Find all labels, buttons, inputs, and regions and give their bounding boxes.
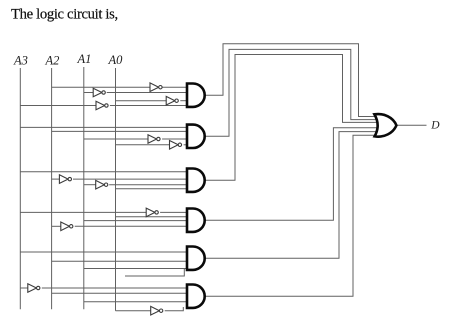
wire G2 input row 4 (A0 to inverter to gate) xyxy=(116,144,170,146)
wire OR output to D xyxy=(396,124,426,126)
wire A3 vertical bus xyxy=(19,68,21,309)
wire A1 vertical bus xyxy=(83,67,85,309)
and-gate G6 xyxy=(187,285,205,308)
wire G1 output route over the top to OR input 1 xyxy=(205,44,382,117)
wire A2 vertical bus xyxy=(51,68,53,309)
wire G1 input row 2 (A1 to inverter to gate) xyxy=(84,92,93,94)
and-gate G5 xyxy=(187,247,205,270)
inverter G1 row4 (NOT A3) xyxy=(96,101,105,110)
wire A0 vertical bus xyxy=(115,68,117,311)
wire G1 input row 3 (A0 to inverter to gate) xyxy=(116,100,167,102)
wire G2 output route over the top to OR input 2 xyxy=(205,49,382,136)
wire G4 input row 4 (A2 to inverter to gate) xyxy=(52,225,61,227)
inverter G3 row2 (NOT A2) xyxy=(59,175,68,184)
inverter G1 row3 (NOT A0) xyxy=(166,96,175,105)
svg-text:A1: A1 xyxy=(77,52,92,66)
inverter G1 row2 (NOT A1) xyxy=(93,88,102,97)
wire G5 output route to OR input 5 xyxy=(205,132,382,259)
inverter G1 row1 (NOT A2) xyxy=(150,83,159,92)
wire G5 input row 2 (A2 to gate) xyxy=(52,260,188,262)
wire G3 input row 1 (A3 to gate) xyxy=(20,171,188,173)
wire G3 input row 2 (A2 to inverter to gate) xyxy=(52,178,60,180)
wire G6 input row 2 (A2 to gate) xyxy=(52,292,188,294)
wire G6 output route to OR input 6 xyxy=(205,135,382,296)
inverter G6 row4 (NOT A0) xyxy=(151,306,160,315)
wire G4 output route to OR input 4 xyxy=(205,128,382,220)
inverter G2 row3 (NOT A1) xyxy=(148,135,157,144)
wire G4 input row 3 (A1 to gate) xyxy=(84,220,188,222)
inverter G2 row4 (NOT A0) xyxy=(170,141,179,150)
svg-text:The logic circuit is,: The logic circuit is, xyxy=(11,7,118,23)
inverter G3 row3 (NOT A1) xyxy=(96,180,105,189)
wire G5 input row 4 (floating stub to gate bottom) xyxy=(125,269,184,276)
wire G6 input row 1 (A3 to inverter to gate) xyxy=(20,287,28,289)
svg-text:A3: A3 xyxy=(13,54,28,68)
wire G2 input row 1 (A3 to gate) xyxy=(20,126,188,128)
wire G5 input row 3 (A1 to gate) xyxy=(84,268,188,270)
and-gate G2 xyxy=(187,125,205,148)
svg-text:A2: A2 xyxy=(45,54,60,68)
wire G4 input row 2 (A0 to gate) xyxy=(116,216,189,218)
wire G2 input row 2 (A2 to gate) xyxy=(52,130,188,132)
svg-text:A0: A0 xyxy=(108,53,124,67)
wire G6 input row 4 (A0 down, inverter, riser into gate bottom) xyxy=(116,310,151,312)
wire G3 input row 4 (A0 to gate) xyxy=(116,188,189,190)
wire G1 input row 4 (A3 to inverter to gate) xyxy=(20,105,96,107)
wire G3 output route over the top to OR input 3 xyxy=(205,55,382,181)
inverter G4 row1 (NOT A3) xyxy=(146,208,155,217)
or-gate U7 xyxy=(374,114,396,137)
and-gate G4 xyxy=(187,209,205,232)
wire G2 input row 3 (A1 to inverter to gate) xyxy=(84,138,148,140)
wire G4 input row 1 (A3 to inverter to gate) xyxy=(20,211,146,213)
inverter G6 row1 (NOT A3) xyxy=(28,284,37,293)
wire G1 input row 1 (A2 to inverter to gate) xyxy=(52,86,150,88)
and-gate G1 xyxy=(187,84,205,107)
svg-text:D: D xyxy=(430,120,440,132)
inverter G4 row4 (NOT A2) xyxy=(61,222,70,231)
wire G5 input row 1 (A3 to gate) xyxy=(20,251,188,253)
wire G6 input row 3 (A1 to gate) xyxy=(84,301,188,303)
wire G3 input row 3 (A1 to inverter to gate) xyxy=(84,184,96,186)
and-gate G3 xyxy=(187,169,205,192)
